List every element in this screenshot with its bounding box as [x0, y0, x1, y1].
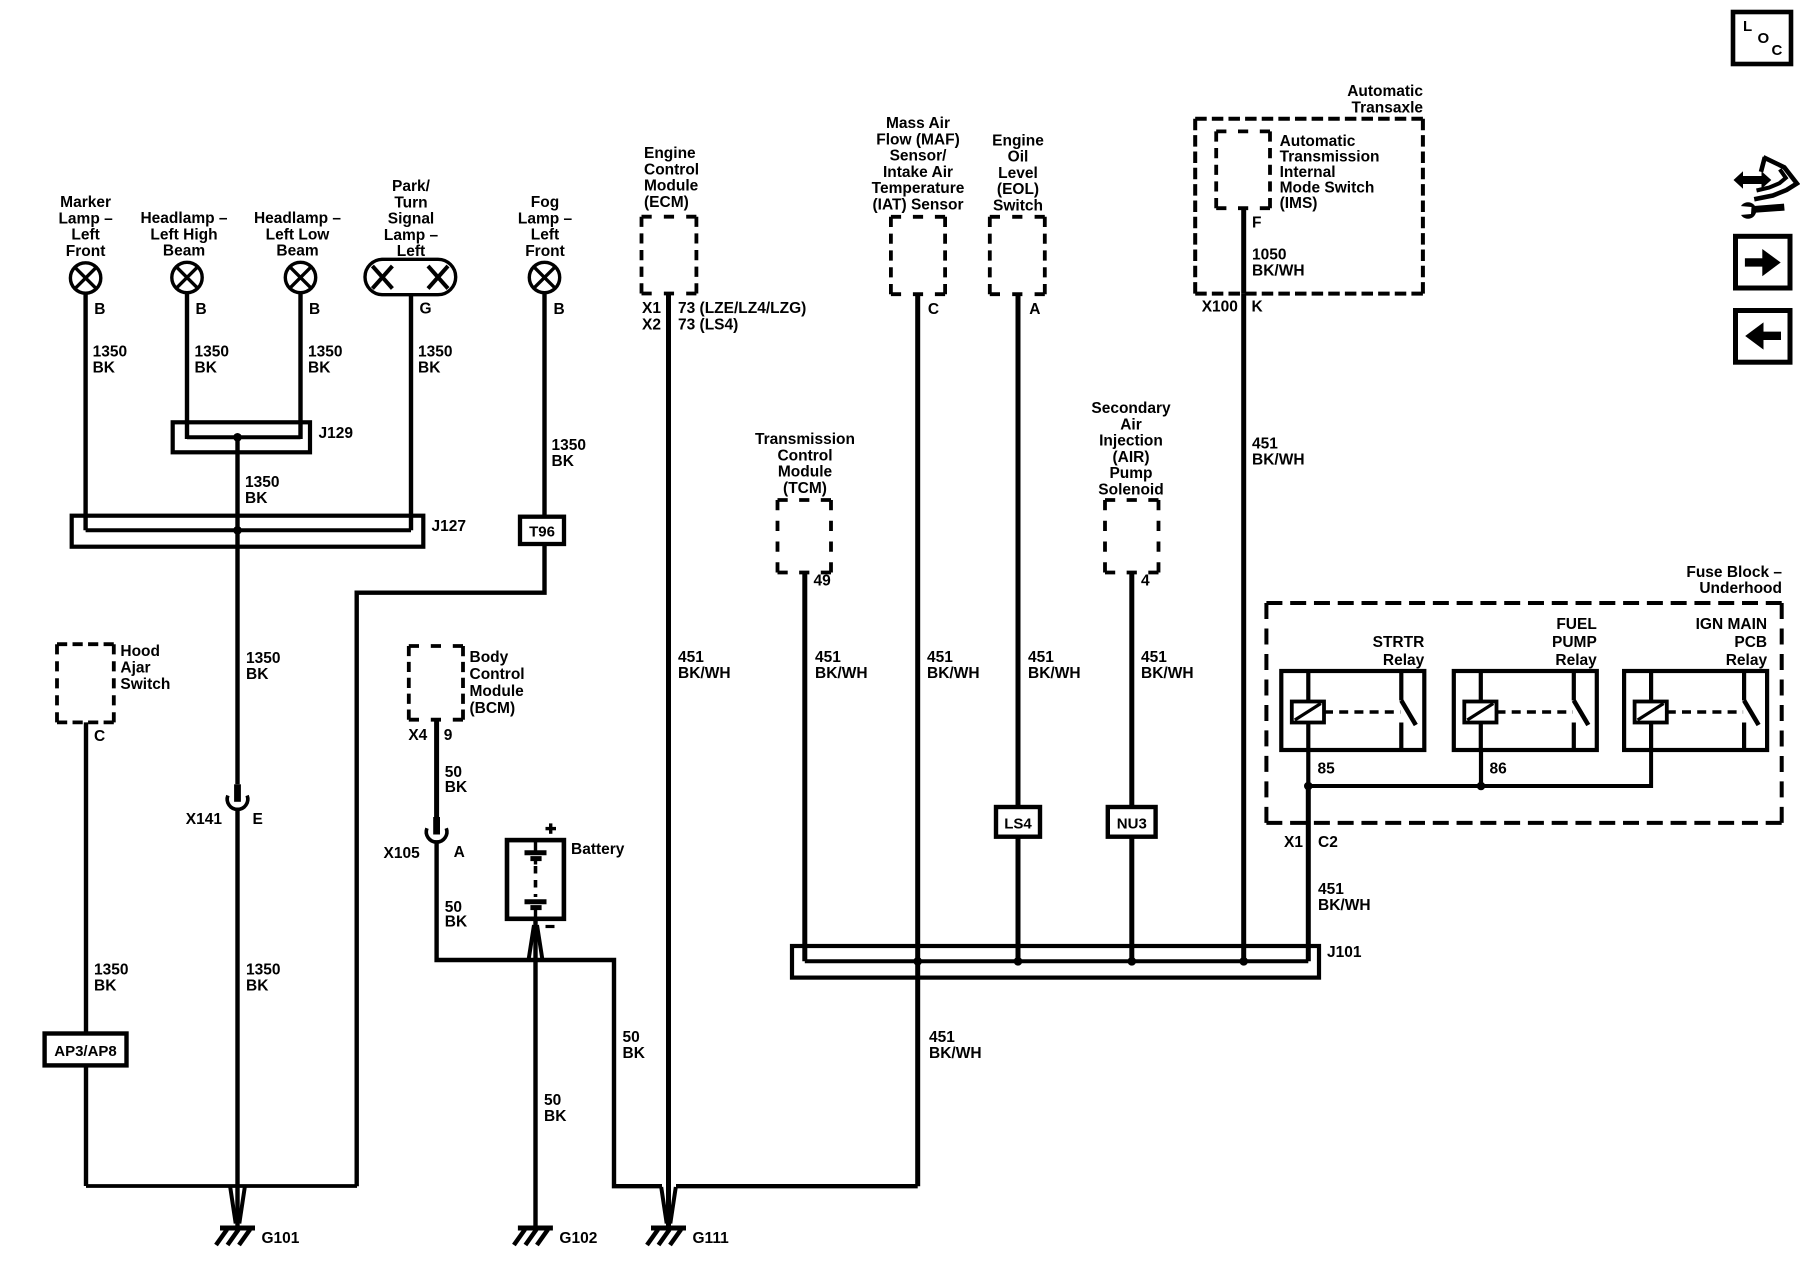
- connector labels X1 / C2 (fuse block): [1284, 834, 1338, 851]
- svg-text:Flow (MAF): Flow (MAF): [876, 131, 960, 148]
- svg-text:Transaxle: Transaxle: [1351, 99, 1423, 116]
- svg-text:Left: Left: [531, 227, 559, 244]
- svg-text:(BCM): (BCM): [470, 700, 516, 717]
- engine code box LS4: [996, 807, 1040, 837]
- next page arrow (right): [1736, 236, 1791, 288]
- svg-text:BK: BK: [308, 360, 331, 377]
- svg-text:BK: BK: [544, 1108, 567, 1125]
- connector labels X100 / K: [1202, 299, 1264, 316]
- svg-text:Fog: Fog: [531, 194, 559, 211]
- svg-text:(IAT) Sensor: (IAT) Sensor: [873, 197, 964, 214]
- svg-text:(EOL): (EOL): [997, 181, 1039, 198]
- inline connector X141 terminal E: [186, 784, 263, 828]
- svg-text:(ECM): (ECM): [644, 194, 689, 211]
- svg-text:451: 451: [929, 1029, 955, 1046]
- svg-text:Automatic: Automatic: [1280, 133, 1356, 150]
- splice J127: [72, 516, 466, 547]
- svg-text:C: C: [1772, 42, 1783, 59]
- ground G111: [647, 1187, 729, 1247]
- svg-text:451: 451: [678, 649, 704, 666]
- wire 451 BK/WH MAF to J101 to G111: [918, 294, 982, 1186]
- location reference box LOC: [1733, 12, 1791, 64]
- svg-text:FUEL: FUEL: [1556, 616, 1596, 633]
- svg-text:BK/WH: BK/WH: [929, 1045, 982, 1062]
- svg-text:Switch: Switch: [120, 676, 170, 693]
- switch: Hood Ajar Switch: [57, 643, 170, 722]
- svg-text:1350: 1350: [94, 962, 128, 979]
- svg-text:AP3/AP8: AP3/AP8: [54, 1043, 117, 1060]
- wire 1350 BK low beam to J129: [301, 292, 343, 439]
- svg-text:1350: 1350: [195, 344, 229, 361]
- wire 451 BK/WH ECM to G111: [669, 294, 731, 1228]
- relay IGN MAIN PCB Relay actuation dashed link: [1667, 710, 1743, 714]
- ground bus into G101: [86, 1184, 357, 1188]
- svg-text:Solenoid: Solenoid: [1098, 482, 1163, 499]
- wire 1350 BK marker lamp to J127: [86, 292, 127, 530]
- svg-text:Fuse Block –: Fuse Block –: [1686, 564, 1782, 581]
- svg-text:Control: Control: [777, 447, 832, 464]
- wire 1350 BK X141 to G101: [238, 808, 281, 1228]
- svg-text:BK: BK: [623, 1045, 646, 1062]
- wire 50 BK BCM to X105: [437, 720, 468, 817]
- svg-text:B: B: [554, 301, 565, 318]
- svg-text:Internal: Internal: [1280, 164, 1336, 181]
- svg-text:X2: X2: [642, 316, 661, 333]
- svg-text:Module: Module: [778, 464, 833, 481]
- svg-text:Front: Front: [66, 243, 106, 260]
- svg-text:J101: J101: [1327, 944, 1362, 961]
- svg-text:B: B: [196, 301, 207, 318]
- svg-text:Temperature: Temperature: [872, 180, 965, 197]
- wire 451 BK/WH fuse block to J101: [1308, 786, 1370, 961]
- svg-text:C: C: [928, 301, 939, 318]
- module: Engine Control Module (ECM): [642, 145, 700, 294]
- relay: STRTR Relay - outline: [1281, 634, 1424, 750]
- svg-text:X141: X141: [186, 811, 223, 828]
- svg-text:Left: Left: [71, 227, 99, 244]
- svg-text:Headlamp –: Headlamp –: [140, 210, 227, 227]
- svg-text:Switch: Switch: [993, 198, 1043, 215]
- svg-text:BK: BK: [93, 360, 116, 377]
- svg-text:G111: G111: [693, 1230, 730, 1247]
- inline connector X105 terminal A: [383, 817, 464, 862]
- svg-text:Front: Front: [525, 243, 565, 260]
- svg-text:B: B: [309, 301, 320, 318]
- ground bus into G111 from MAF wire: [676, 1184, 918, 1188]
- svg-text:1350: 1350: [552, 437, 586, 454]
- svg-text:Air: Air: [1120, 416, 1142, 433]
- svg-text:Left Low: Left Low: [266, 226, 331, 243]
- svg-text:Level: Level: [998, 165, 1038, 182]
- svg-text:1050: 1050: [1252, 247, 1286, 264]
- previous page arrow (left): [1736, 311, 1791, 363]
- svg-text:G102: G102: [559, 1230, 597, 1247]
- svg-text:Battery: Battery: [571, 841, 625, 858]
- relay IGN MAIN PCB Relay coil: [1635, 671, 1667, 750]
- fuse AP3/AP8: [45, 1034, 127, 1066]
- svg-text:PCB: PCB: [1734, 634, 1767, 651]
- engine code box NU3: [1108, 807, 1156, 837]
- svg-text:J129: J129: [319, 425, 354, 442]
- wire 1350 BK high beam to J129: [187, 292, 229, 439]
- svg-text:4: 4: [1141, 573, 1150, 590]
- switch: Automatic Transmission Internal Mode Switch (IMS): [1216, 131, 1379, 212]
- wire 451 BK/WH EOL to J101: [1018, 294, 1081, 961]
- connector T96: [520, 517, 564, 544]
- svg-text:Mass Air: Mass Air: [886, 115, 950, 132]
- lamp: Headlamp - Left High Beam: [140, 210, 227, 293]
- svg-text:Underhood: Underhood: [1699, 580, 1782, 597]
- svg-text:Park/: Park/: [392, 178, 431, 195]
- relay IGN MAIN PCB Relay switch contact: [1744, 671, 1759, 750]
- svg-text:BK: BK: [246, 666, 269, 683]
- svg-text:Module: Module: [644, 178, 699, 195]
- lamp: Fog Lamp - Left Front: [518, 194, 573, 293]
- svg-text:Oil: Oil: [1008, 149, 1029, 166]
- svg-text:J127: J127: [432, 518, 466, 535]
- wire 1350 BK fog lamp to T96: [545, 292, 586, 518]
- svg-text:86: 86: [1490, 761, 1508, 778]
- module: Transmission Control Module (TCM): [755, 431, 855, 573]
- svg-text:50: 50: [544, 1092, 561, 1109]
- svg-text:Mode Switch: Mode Switch: [1280, 180, 1375, 197]
- svg-text:BK/WH: BK/WH: [1252, 452, 1305, 469]
- svg-text:PUMP: PUMP: [1552, 634, 1597, 651]
- svg-text:Lamp –: Lamp –: [518, 210, 573, 227]
- module: Body Control Module (BCM): [409, 646, 525, 720]
- svg-text:1350: 1350: [418, 344, 452, 361]
- svg-text:85: 85: [1318, 761, 1336, 778]
- svg-text:LS4: LS4: [1004, 816, 1032, 833]
- svg-text:Beam: Beam: [276, 243, 318, 260]
- wire relay coil bus 85/86: [1304, 750, 1651, 790]
- ground G101: [216, 1187, 300, 1247]
- svg-text:A: A: [1029, 301, 1040, 318]
- svg-text:Engine: Engine: [992, 132, 1044, 149]
- relay FUEL PUMP Relay switch contact: [1574, 671, 1589, 750]
- svg-text:451: 451: [1252, 436, 1278, 453]
- relay STRTR Relay actuation dashed link: [1324, 710, 1400, 714]
- wire 451 BK/WH X100 to J101: [1244, 294, 1305, 962]
- svg-text:Control: Control: [644, 161, 699, 178]
- svg-text:Relay: Relay: [1726, 652, 1768, 669]
- svg-text:Turn: Turn: [394, 194, 427, 211]
- svg-text:451: 451: [815, 649, 841, 666]
- svg-text:B: B: [94, 301, 105, 318]
- svg-text:73 (LS4): 73 (LS4): [678, 316, 738, 333]
- svg-text:Intake Air: Intake Air: [883, 164, 953, 181]
- svg-text:BK/WH: BK/WH: [1141, 665, 1194, 682]
- svg-text:E: E: [253, 811, 263, 828]
- svg-text:Secondary: Secondary: [1091, 400, 1171, 417]
- svg-text:C2: C2: [1318, 834, 1338, 851]
- wire 1350 BK J127 to X141: [238, 530, 281, 784]
- svg-text:Injection: Injection: [1099, 433, 1163, 450]
- sensor: Mass Air Flow (MAF)/IAT Sensor: [872, 115, 965, 294]
- svg-text:NU3: NU3: [1117, 816, 1147, 833]
- relay FUEL PUMP Relay actuation dashed link: [1497, 710, 1573, 714]
- svg-text:1350: 1350: [93, 344, 127, 361]
- relay: FUEL PUMP Relay - outline: [1454, 616, 1597, 750]
- svg-text:Pump: Pump: [1109, 465, 1152, 482]
- svg-text:(TCM): (TCM): [783, 480, 827, 497]
- svg-text:K: K: [1252, 299, 1264, 316]
- switch: Engine Oil Level (EOL) Switch: [990, 132, 1045, 294]
- relay STRTR Relay coil: [1292, 671, 1324, 750]
- svg-text:Left High: Left High: [150, 226, 217, 243]
- svg-text:BK: BK: [445, 779, 468, 796]
- svg-text:BK: BK: [246, 978, 269, 995]
- svg-text:T96: T96: [529, 524, 555, 541]
- wire battery negative to ground bus and G102: [529, 918, 543, 1227]
- svg-text:BK: BK: [552, 453, 575, 470]
- pin labels X1/X2 73: [642, 300, 806, 333]
- wire 50 BK X105 to ground bus: [437, 840, 662, 1186]
- svg-text:Hood: Hood: [120, 643, 160, 660]
- svg-text:G: G: [420, 301, 432, 318]
- svg-text:1350: 1350: [245, 474, 279, 491]
- wire 1350 BK J129 to J127: [238, 437, 280, 530]
- svg-text:BK/WH: BK/WH: [815, 665, 868, 682]
- svg-text:Left: Left: [397, 243, 425, 260]
- svg-text:X1: X1: [642, 300, 661, 317]
- svg-text:1350: 1350: [246, 650, 280, 667]
- svg-text:Lamp –: Lamp –: [58, 210, 113, 227]
- svg-text:9: 9: [444, 727, 453, 744]
- svg-text:BK: BK: [418, 360, 441, 377]
- svg-text:451: 451: [927, 649, 953, 666]
- svg-text:BK/WH: BK/WH: [1318, 897, 1371, 914]
- svg-text:BK/WH: BK/WH: [678, 665, 731, 682]
- splice J101: [792, 944, 1362, 978]
- svg-text:49: 49: [814, 573, 832, 590]
- svg-text:Ajar: Ajar: [120, 660, 150, 677]
- svg-text:STRTR: STRTR: [1373, 634, 1425, 651]
- svg-text:Marker: Marker: [60, 194, 111, 211]
- svg-text:451: 451: [1028, 649, 1054, 666]
- svg-text:(IMS): (IMS): [1280, 195, 1318, 212]
- lamp: Headlamp - Left Low Beam: [254, 210, 341, 293]
- svg-text:Lamp –: Lamp –: [384, 227, 439, 244]
- svg-text:Headlamp –: Headlamp –: [254, 210, 341, 227]
- svg-text:Transmission: Transmission: [755, 431, 855, 448]
- ground G102: [514, 1228, 597, 1247]
- solenoid: Secondary Air Injection (AIR) Pump Solenoid: [1091, 400, 1171, 573]
- svg-text:Control: Control: [470, 666, 525, 683]
- relay: IGN MAIN PCB Relay - outline: [1624, 616, 1767, 750]
- relay FUEL PUMP Relay coil: [1464, 671, 1496, 750]
- svg-text:X4: X4: [408, 727, 427, 744]
- svg-text:BK: BK: [445, 914, 468, 931]
- svg-text:A: A: [454, 844, 465, 861]
- wire 1350 BK park/turn lamp to J127: [411, 295, 452, 531]
- svg-text:O: O: [1758, 30, 1770, 47]
- svg-text:1350: 1350: [308, 344, 342, 361]
- svg-text:451: 451: [1141, 649, 1167, 666]
- svg-text:Body: Body: [470, 649, 509, 666]
- svg-text:Relay: Relay: [1383, 652, 1425, 669]
- svg-text:BK/WH: BK/WH: [927, 665, 980, 682]
- svg-text:F: F: [1252, 215, 1261, 232]
- svg-text:Transmission: Transmission: [1280, 149, 1380, 166]
- svg-text:BK: BK: [245, 490, 268, 507]
- diagnostic directions icon (arrow through outline with wrench): [1734, 157, 1797, 362]
- wire 1350 BK hood ajar switch to G101: [86, 722, 128, 1186]
- svg-text:X105: X105: [383, 845, 420, 862]
- svg-text:Automatic: Automatic: [1347, 83, 1423, 100]
- svg-text:451: 451: [1318, 881, 1344, 898]
- svg-text:Beam: Beam: [163, 243, 205, 260]
- svg-text:1350: 1350: [246, 962, 280, 979]
- svg-text:BK: BK: [94, 978, 117, 995]
- wire fog lamp T96 down and left to G101 area: [357, 544, 545, 1186]
- svg-text:BK/WH: BK/WH: [1028, 665, 1081, 682]
- assembly: Automatic Transaxle (dashed outline): [1195, 83, 1423, 294]
- svg-text:X1: X1: [1284, 834, 1303, 851]
- fuse block - underhood (dashed outline): [1266, 564, 1782, 823]
- svg-text:50: 50: [623, 1029, 640, 1046]
- svg-text:X100: X100: [1202, 299, 1238, 316]
- pin labels X4 / 9 (BCM): [408, 727, 452, 744]
- svg-text:G101: G101: [262, 1230, 300, 1247]
- battery: [507, 823, 625, 926]
- svg-text:73 (LZE/LZ4/LZG): 73 (LZE/LZ4/LZG): [678, 300, 806, 317]
- svg-text:L: L: [1743, 18, 1752, 35]
- svg-text:Engine: Engine: [644, 145, 696, 162]
- wire 451 BK/WH AIR solenoid to J101: [1132, 573, 1194, 962]
- svg-text:BK/WH: BK/WH: [1252, 263, 1305, 280]
- svg-text:C: C: [94, 728, 105, 745]
- wire 1050 BK/WH IMS to X100: [1244, 208, 1305, 293]
- svg-text:BK: BK: [195, 360, 218, 377]
- lamp: Marker Lamp - Left Front: [58, 194, 113, 293]
- lamp: Park/Turn Signal Lamp - Left: [365, 178, 456, 295]
- svg-text:Module: Module: [470, 683, 525, 700]
- svg-text:Relay: Relay: [1555, 652, 1597, 669]
- wire 451 BK/WH TCM to J101: [805, 573, 868, 962]
- svg-text:Sensor/: Sensor/: [890, 148, 948, 165]
- splice J129: [173, 422, 354, 452]
- svg-text:Signal: Signal: [388, 211, 435, 228]
- svg-text:IGN MAIN: IGN MAIN: [1696, 616, 1767, 633]
- svg-text:(AIR): (AIR): [1112, 449, 1149, 466]
- relay STRTR Relay switch contact: [1401, 671, 1416, 750]
